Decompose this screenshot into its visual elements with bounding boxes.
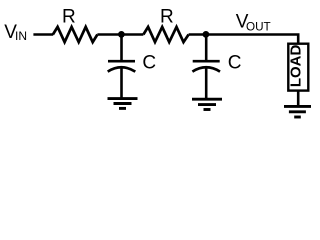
wire from R1 to R2 through node A [97, 33, 143, 36]
ground (below C1) [108, 99, 138, 109]
node V_IN label [4, 22, 27, 43]
capacitor C2 [192, 61, 220, 71]
wire from R2 to LOAD corner through node B [189, 35, 299, 44]
value label R (R1) [62, 6, 76, 27]
value label R (R2) [160, 6, 174, 27]
wire from node A down to capacitor C1 [120, 35, 123, 62]
wire from LOAD to ground [297, 90, 300, 106]
svg-text:IN: IN [15, 29, 27, 43]
svg-text:R: R [62, 6, 76, 27]
svg-text:C: C [142, 53, 156, 74]
junction dot node B [203, 31, 210, 38]
value label C (C2) [228, 53, 242, 74]
wire from V_IN to resistor R1 [33, 33, 53, 36]
svg-text:OUT: OUT [246, 21, 271, 34]
wire from node B down to capacitor C2 [205, 35, 208, 62]
wire from capacitor C1 to ground [120, 68, 123, 99]
node V_OUT label [236, 12, 271, 34]
value label C (C1) [142, 53, 156, 74]
load box LOAD [288, 44, 309, 91]
svg-text:LOAD: LOAD [288, 44, 305, 87]
junction dot node A [118, 31, 125, 38]
svg-text:C: C [228, 53, 242, 74]
svg-text:R: R [160, 6, 174, 27]
resistor R1 [53, 27, 98, 42]
ground (below LOAD) [284, 106, 311, 117]
ground (below C2) [192, 99, 222, 109]
capacitor C1 [108, 61, 136, 71]
resistor R2 [143, 27, 188, 42]
wire from capacitor C2 to ground [205, 68, 208, 100]
